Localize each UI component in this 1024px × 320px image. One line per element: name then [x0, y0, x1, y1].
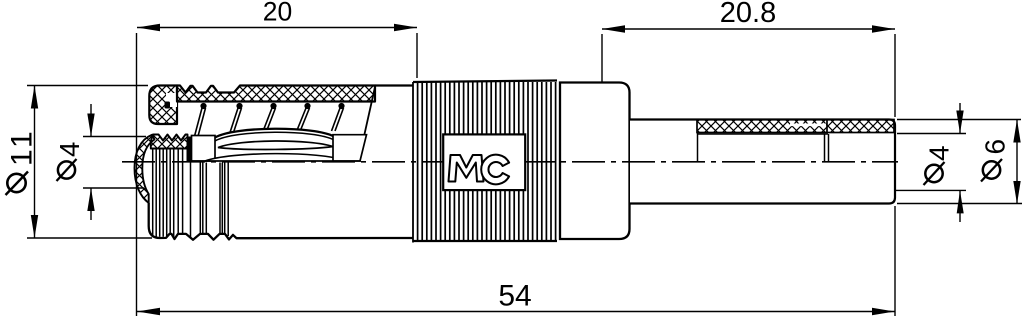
- svg-text:4: 4: [54, 142, 85, 157]
- svg-text:4: 4: [924, 145, 955, 161]
- svg-text:20.8: 20.8: [720, 0, 776, 29]
- svg-text:54: 54: [498, 280, 531, 313]
- svg-text:11: 11: [6, 128, 39, 166]
- svg-text:20: 20: [263, 0, 292, 27]
- svg-text:6: 6: [980, 139, 1011, 155]
